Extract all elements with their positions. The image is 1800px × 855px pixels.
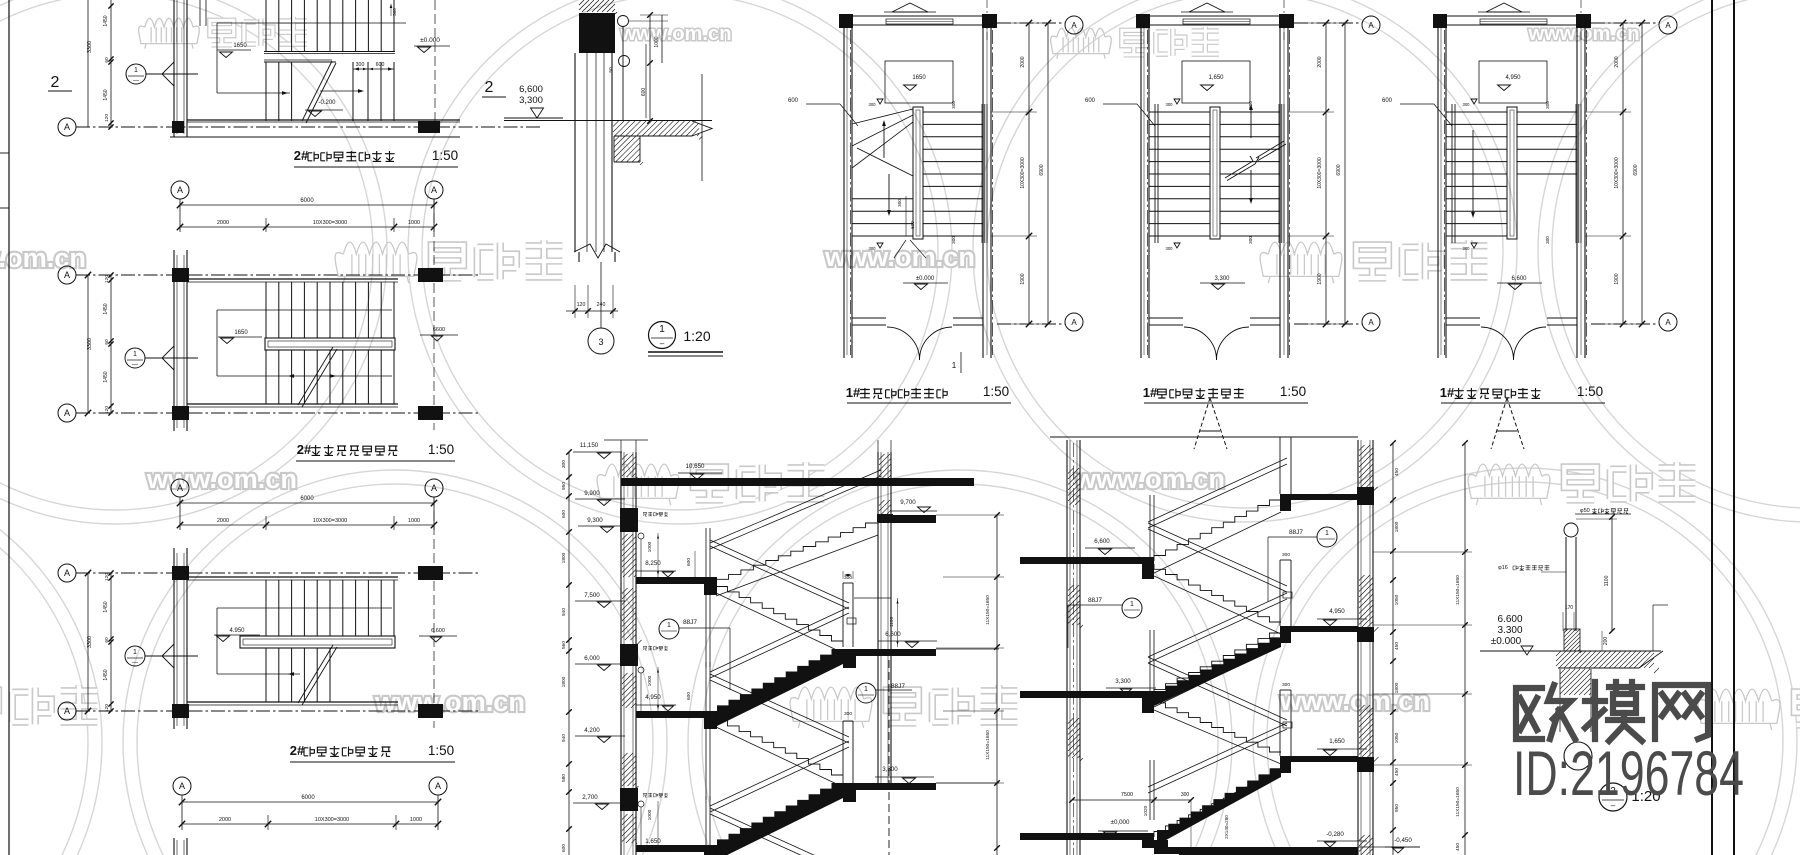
1# f1 side rails <box>983 104 986 243</box>
sec2 thin flight desc 3.3 to 1.65 <box>1154 698 1281 752</box>
1# f2 inner level box <box>1182 61 1250 103</box>
svg-text:1000: 1000 <box>408 220 420 226</box>
2# stair plan f2 treads lower flight <box>266 350 394 404</box>
svg-text:300: 300 <box>392 8 397 16</box>
svg-text:1000: 1000 <box>647 809 653 820</box>
detail2 curb hatched <box>1564 629 1580 651</box>
svg-text:300: 300 <box>869 246 877 251</box>
watermark logo <box>139 17 307 49</box>
2# f2 well outline <box>217 309 392 311</box>
2# f1 bottom floor band <box>187 119 460 121</box>
svg-text:88J7: 88J7 <box>683 619 697 626</box>
1# f1 direction arrows <box>883 122 885 158</box>
svg-text:6000: 6000 <box>300 198 314 204</box>
2# stair plan f2 right axis dashed <box>433 199 435 430</box>
2# stair plan f3 walls <box>173 548 175 729</box>
svg-text:88J7: 88J7 <box>891 683 905 690</box>
svg-text:600: 600 <box>910 221 915 229</box>
2# f3 well outline <box>217 607 392 609</box>
detail1 below-wall dims 120 240 <box>566 310 618 312</box>
2# stair plan f3 top dimension 6000 <box>180 502 434 504</box>
svg-text:±0.000: ±0.000 <box>1491 636 1522 647</box>
1# f2 right dims <box>1325 23 1327 324</box>
2# f1 direction arrow 2 <box>320 90 362 92</box>
svg-text:4,200: 4,200 <box>584 727 600 734</box>
left frame line <box>8 0 10 855</box>
svg-text:1: 1 <box>134 67 138 74</box>
1# f3 big section letter A below title <box>1491 398 1507 449</box>
svg-text:1450: 1450 <box>103 601 109 612</box>
1# f1 inner level box <box>885 61 953 103</box>
2# f1 treads lower left <box>266 62 292 121</box>
svg-text:2000: 2000 <box>217 518 229 524</box>
2# f4 wall stub <box>173 838 175 855</box>
svg-text:6.600: 6.600 <box>431 628 445 634</box>
svg-text:120: 120 <box>104 704 110 712</box>
svg-text:1020: 1020 <box>1143 805 1149 816</box>
1# f2 walls <box>1140 16 1142 358</box>
svg-text:6,000: 6,000 <box>584 655 600 662</box>
watermark logo <box>1468 462 1695 505</box>
2# stair plan f3 treads lower flight <box>266 648 330 702</box>
watermark logo <box>790 685 1017 728</box>
svg-text:A: A <box>1368 21 1374 30</box>
detail2 below slab beam <box>1559 669 1561 732</box>
svg-text:300: 300 <box>1282 552 1290 558</box>
sec1 right wall <box>877 452 879 790</box>
sec1 railing note 8.250 <box>638 533 644 539</box>
svg-text:1650: 1650 <box>234 330 248 336</box>
sec1 left wall hatch segments <box>622 454 638 479</box>
svg-text:1050: 1050 <box>1394 594 1400 605</box>
svg-text:6900: 6900 <box>1336 164 1342 175</box>
sec1 newel post 6.600 <box>842 583 844 647</box>
svg-text:3300: 3300 <box>87 41 93 53</box>
svg-text:2000: 2000 <box>1020 56 1026 67</box>
svg-text:1000: 1000 <box>410 817 422 823</box>
svg-text:A: A <box>431 185 437 195</box>
svg-text:600: 600 <box>686 692 692 700</box>
sec1 slab 6.600 <box>845 649 936 656</box>
svg-text:300: 300 <box>1166 102 1174 107</box>
svg-text:1450: 1450 <box>103 15 109 26</box>
svg-text:6,600: 6,600 <box>1511 276 1527 282</box>
sec1 landing 1.650 <box>636 845 714 852</box>
1# f3 roof triangle mark <box>1486 3 1522 12</box>
svg-text:ID:2196784: ID:2196784 <box>1513 739 1744 809</box>
svg-text:2000: 2000 <box>217 220 229 226</box>
2# stair plan f3 right axis dashed <box>433 497 435 728</box>
sec2 rails 1 <box>1148 458 1287 522</box>
sec1 rails thin flight 2 <box>710 540 849 603</box>
svg-text:300: 300 <box>561 460 567 468</box>
1# f3 bottom wall band <box>1446 317 1480 319</box>
svg-text:A: A <box>1071 318 1077 327</box>
sec1 landing 8.250 <box>636 577 714 584</box>
svg-text:2: 2 <box>51 74 60 91</box>
svg-text:3,300: 3,300 <box>1214 276 1230 282</box>
svg-text:300: 300 <box>844 711 852 717</box>
svg-text:1000: 1000 <box>647 541 653 552</box>
2# stair plan f2 axis A row bottom <box>58 404 76 422</box>
2# stair plan f3 middle handrail <box>240 636 395 648</box>
sec2 landing 4.950 <box>1291 626 1358 632</box>
1# f3 top columns <box>1433 14 1447 28</box>
2# f1 middle handrail <box>264 51 395 53</box>
svg-text:1800: 1800 <box>561 552 567 563</box>
sec1 railing note 1.650 <box>638 801 644 807</box>
svg-text:1#: 1# <box>846 385 861 400</box>
1# f1 top axis <box>997 22 1065 24</box>
svg-text:1100: 1100 <box>889 617 895 628</box>
svg-text:300: 300 <box>1248 236 1253 244</box>
svg-text:A: A <box>435 781 441 791</box>
sec2 ref bubble 88J7 right top <box>1317 527 1337 547</box>
svg-text:2#: 2# <box>290 743 305 758</box>
svg-text:A: A <box>1665 318 1671 327</box>
sec1 rails black flight 1 <box>710 607 849 672</box>
1# f1 roof triangle mark <box>892 3 928 12</box>
1# f2 break line right flight <box>1225 161 1253 178</box>
sec1 landing posts <box>705 528 707 667</box>
2# stair plan f2 middle handrail <box>265 338 395 350</box>
svg-text:600: 600 <box>1382 98 1393 104</box>
detail1 drawing label bubble 1 scale 1:20 <box>649 322 676 349</box>
sec2 right dim col inner <box>1392 443 1394 855</box>
2# stair plan f2 top dimension row2 <box>180 226 434 228</box>
sec1 slab 9.700 <box>878 515 936 523</box>
sec1 landing 4.950 <box>636 711 714 718</box>
2# f1 treads upper <box>266 0 394 51</box>
svg-text:1#: 1# <box>1440 385 1455 400</box>
svg-text:1#: 1# <box>1143 385 1158 400</box>
svg-text:1: 1 <box>659 324 665 335</box>
1# f3 door arcs <box>1481 327 1514 360</box>
2# f1 ground axis <box>58 118 76 136</box>
svg-text:60: 60 <box>104 339 110 345</box>
1# f1 top wall band with window <box>852 15 983 17</box>
1# f2 direction arrows <box>1250 106 1252 138</box>
detail1 opening edge line <box>701 74 703 181</box>
sec2 bottom dims 7500 300 <box>1072 799 1154 801</box>
svg-text:120: 120 <box>577 302 586 308</box>
detail2 right angle line <box>1652 605 1654 651</box>
svg-text:7,500: 7,500 <box>584 592 600 599</box>
svg-text:1:50: 1:50 <box>428 442 454 457</box>
sec2 rails 5 <box>1148 723 1287 787</box>
1# f2 top columns <box>1136 14 1150 28</box>
svg-text:6,600: 6,600 <box>885 631 901 638</box>
sec2 right dim col outer <box>1464 443 1466 855</box>
svg-text:600: 600 <box>561 510 567 518</box>
2# stair plan f3 treads upper flight <box>266 580 394 636</box>
detail1 railing posts <box>618 16 629 27</box>
svg-text:A: A <box>64 706 70 716</box>
sec2 thin flight asc 6.6 to 8.25 <box>1154 500 1281 561</box>
sec2 post connectors <box>1283 592 1292 598</box>
2# stair plan f2 columns <box>172 268 189 282</box>
sec2 right wall hatch segments <box>1359 445 1378 492</box>
svg-text:950: 950 <box>561 482 567 490</box>
sec1 rails top flight <box>710 470 881 543</box>
svg-text:11X150=1650: 11X150=1650 <box>1455 787 1461 817</box>
svg-text:A: A <box>64 270 70 280</box>
2# f1 break line <box>302 61 332 121</box>
detail2 slab hatched <box>1513 650 1661 652</box>
svg-text:450: 450 <box>1394 642 1400 650</box>
svg-text:6600: 6600 <box>433 327 445 333</box>
svg-text:A: A <box>1071 21 1077 30</box>
svg-text:1,650: 1,650 <box>1208 75 1224 81</box>
svg-text:6900: 6900 <box>1039 164 1045 175</box>
sec2 slab 3.300 left <box>1020 691 1142 698</box>
sec1 railing note 4.950 <box>638 667 644 673</box>
svg-text:1650: 1650 <box>233 43 247 49</box>
1# f2 bottom axis <box>1294 323 1362 325</box>
svg-text:-0,450: -0,450 <box>1394 837 1412 844</box>
2# f1 treads lower right <box>353 62 394 121</box>
svg-text:300: 300 <box>951 101 956 109</box>
1# f2 bottom wall band <box>1149 317 1183 319</box>
sec2 rails 4 <box>1148 657 1287 720</box>
1# f3 right dims <box>1622 23 1624 324</box>
svg-text:11X150=1650: 11X150=1650 <box>985 730 991 760</box>
2# f1 right axis dashed vertical <box>434 0 436 130</box>
svg-text:A: A <box>1368 318 1374 327</box>
1# f3 right treads <box>1517 112 1577 174</box>
svg-text:450: 450 <box>1394 468 1400 476</box>
svg-text:300: 300 <box>1282 682 1290 688</box>
1# f2 top axis <box>1294 22 1362 24</box>
sec1 thin flight 4.95 to 3.3 <box>716 715 843 775</box>
detail1 axis bubble 3 <box>588 328 614 354</box>
svg-text:1800: 1800 <box>1394 682 1400 693</box>
2# stair plan f2 axis bubbles top <box>171 181 189 199</box>
2# stair plan f3 section mark 1 <box>125 646 145 666</box>
2# stair plan f3 break line <box>298 645 333 703</box>
detail1 right dims <box>649 15 651 121</box>
1# f2 central rail <box>1210 107 1220 239</box>
svg-text:-0.200: -0.200 <box>318 100 336 106</box>
svg-text:6000: 6000 <box>300 496 314 502</box>
1# f2 door arcs <box>1184 327 1217 360</box>
svg-text:300: 300 <box>1545 101 1550 109</box>
watermark logo <box>1260 240 1487 283</box>
1# f2 roof triangle mark <box>1189 3 1225 12</box>
sec1 thin flight below 1.65 <box>716 849 760 855</box>
2# stair plan f3 columns <box>172 566 189 580</box>
svg-text:—: — <box>132 362 138 368</box>
2# stair plan f3 axis A row bottom <box>58 702 76 720</box>
1# f2 right treads <box>1220 112 1280 236</box>
1# f3 direction arrows <box>1472 130 1474 216</box>
svg-text:www.om.cn: www.om.cn <box>146 464 297 494</box>
1# f2 big section letter A below title <box>1194 398 1210 449</box>
sec2 ground steps <box>1154 840 1168 848</box>
svg-text:±0.000: ±0.000 <box>420 37 440 44</box>
sec1 left wall <box>620 452 622 855</box>
svg-text:10X300=3000: 10X300=3000 <box>315 817 349 823</box>
sec1 slab 3.300 <box>845 783 936 790</box>
svg-text:A: A <box>179 781 185 791</box>
svg-text:600: 600 <box>376 62 385 68</box>
svg-text:300: 300 <box>1463 246 1471 251</box>
1# f1 bottom axis <box>997 323 1065 325</box>
om.cn site logo text <box>1513 682 1744 809</box>
sec1 left wall beams <box>620 508 638 532</box>
svg-text:A: A <box>1665 21 1671 30</box>
svg-text:4,950: 4,950 <box>1329 608 1345 615</box>
detail1 slab drop hatched <box>613 136 615 162</box>
svg-text:1800: 1800 <box>1394 521 1400 532</box>
svg-text:4,950: 4,950 <box>1505 75 1521 81</box>
svg-text:1,650: 1,650 <box>645 838 661 845</box>
svg-text:450: 450 <box>1455 843 1461 851</box>
1# f2 left treads <box>1149 112 1210 236</box>
svg-text:3300: 3300 <box>87 338 93 350</box>
svg-text:A: A <box>177 185 183 195</box>
svg-text:300: 300 <box>1181 792 1190 798</box>
1# f1 winder break line <box>857 148 913 176</box>
svg-text:300: 300 <box>869 102 877 107</box>
1# f1 right dims <box>1028 23 1030 324</box>
svg-text:300: 300 <box>1248 101 1253 109</box>
sec1 thin flight 8.25 to 9.7 ascending <box>716 523 878 584</box>
svg-text:1050: 1050 <box>1394 732 1400 743</box>
1# f1 central rail <box>913 107 923 239</box>
svg-text:1900: 1900 <box>1020 273 1026 284</box>
1# f1 door arcs <box>887 327 920 360</box>
1# f3 bottom axis <box>1591 323 1659 325</box>
svg-text:6,600: 6,600 <box>1094 538 1110 545</box>
svg-text:www.om.cn: www.om.cn <box>619 23 731 45</box>
svg-text:1: 1 <box>1130 601 1134 608</box>
2# stair plan f2 top dimension 6000 <box>180 204 434 206</box>
svg-text:1:20: 1:20 <box>683 328 710 344</box>
svg-text:1000: 1000 <box>654 36 660 47</box>
svg-text:4,950: 4,950 <box>645 694 661 701</box>
svg-text:600: 600 <box>1085 98 1096 104</box>
watermark logo <box>0 685 97 728</box>
svg-text:10,650: 10,650 <box>686 463 705 470</box>
svg-text:300: 300 <box>897 199 902 207</box>
1# f2 wall centerline dashdots <box>1147 30 1149 355</box>
svg-text:φ50: φ50 <box>1580 508 1590 514</box>
svg-text:2#: 2# <box>294 148 309 163</box>
2# f1 well outline <box>217 22 406 24</box>
svg-text:300: 300 <box>1463 102 1471 107</box>
svg-text:88J7: 88J7 <box>1289 529 1303 536</box>
svg-text:—: — <box>133 78 139 84</box>
1# f1 top columns <box>839 14 853 28</box>
svg-text:170: 170 <box>1565 605 1574 611</box>
svg-text:88J7: 88J7 <box>1088 597 1102 604</box>
sec1 top boundary lines <box>604 439 648 441</box>
watermark logo <box>1698 687 1800 730</box>
sec2 slab 6.600 left <box>1020 557 1142 564</box>
svg-text:1100: 1100 <box>1604 575 1610 586</box>
svg-text:300: 300 <box>1166 246 1174 251</box>
sec2 left wall hatch segments <box>1068 468 1081 506</box>
2# stair plan f2 section mark 1 <box>125 348 145 368</box>
svg-text:10X300=3000: 10X300=3000 <box>313 220 347 226</box>
sec1 rail to wall at 6.600 <box>854 597 891 599</box>
svg-text:11X150=1650: 11X150=1650 <box>985 595 991 625</box>
2# stair plan f2 treads upper flight <box>266 282 394 338</box>
1# f3 top axis <box>1591 22 1659 24</box>
svg-text:1900: 1900 <box>1614 273 1620 284</box>
1# f1 walls <box>843 16 845 358</box>
svg-text:3,300: 3,300 <box>519 95 543 106</box>
2# stair plan f3 axis A row top <box>58 564 76 582</box>
2# stair plan f3 axis bubbles top <box>171 479 189 497</box>
sec2 newel post 8.250 partial <box>1279 437 1281 494</box>
sec1 ref bubble 88J7 lower <box>856 683 876 703</box>
1# f3 walls <box>1437 16 1439 358</box>
svg-text:600: 600 <box>686 558 692 566</box>
svg-text:300: 300 <box>1545 236 1550 244</box>
watermark logo <box>1051 27 1219 59</box>
svg-text:10X300=3000: 10X300=3000 <box>1317 157 1323 189</box>
svg-text:1:50: 1:50 <box>428 743 454 758</box>
svg-text:560: 560 <box>561 641 567 649</box>
2# stair plan f2 axis A row top <box>58 266 76 284</box>
sec2 right wall <box>1357 440 1359 855</box>
detail1 slab leader lines <box>645 44 647 118</box>
svg-text:9,900: 9,900 <box>584 490 600 497</box>
svg-text:3.300: 3.300 <box>1497 625 1522 636</box>
sec2 ref bubble 88J7 left <box>1122 598 1142 618</box>
sec1 rails bottom <box>710 808 849 855</box>
sec1 ref bubble 88J7 upper <box>659 619 679 639</box>
sec1 rail height dim 1100 <box>897 598 899 647</box>
2# stair plan f3 left dims <box>87 573 89 711</box>
svg-text:3: 3 <box>598 337 603 347</box>
sec1 newel post 3.300 <box>842 721 844 783</box>
sec2 top ceiling line <box>1050 436 1358 438</box>
svg-text:1650: 1650 <box>912 75 926 81</box>
sec2 black flight 1.65 to 0.0 <box>1157 762 1281 845</box>
svg-text:450: 450 <box>1394 768 1400 776</box>
2# f2 direction arrows <box>288 374 294 378</box>
sec2 slab 0.000 left <box>1020 833 1142 840</box>
svg-text:2000: 2000 <box>1614 56 1620 67</box>
sec1 rails black flight 2 <box>710 741 849 806</box>
svg-text:1:50: 1:50 <box>1280 384 1306 399</box>
svg-text:120: 120 <box>104 406 110 414</box>
2# stair plan f2 break line <box>298 347 333 405</box>
svg-text:-0,280: -0,280 <box>1326 831 1344 838</box>
1# f2 top wall band with window <box>1149 15 1280 17</box>
svg-text:580: 580 <box>561 774 567 782</box>
svg-text:6000: 6000 <box>301 795 315 801</box>
svg-text:120: 120 <box>104 275 110 283</box>
svg-text:9,300: 9,300 <box>587 517 603 524</box>
svg-text:2,700: 2,700 <box>582 794 598 801</box>
sec2 left wall <box>1066 440 1068 855</box>
svg-text:1800: 1800 <box>561 676 567 687</box>
svg-text:600: 600 <box>788 98 799 104</box>
sec2 right wall beams <box>1357 487 1374 505</box>
right frame border <box>1711 0 1713 855</box>
svg-text:3,300: 3,300 <box>882 766 898 773</box>
svg-text:60: 60 <box>104 637 110 643</box>
svg-text:950: 950 <box>1394 804 1400 812</box>
svg-text:120: 120 <box>104 114 110 122</box>
svg-text:200: 200 <box>1603 637 1609 646</box>
svg-text:A: A <box>64 122 70 132</box>
svg-text:1450: 1450 <box>103 303 109 314</box>
